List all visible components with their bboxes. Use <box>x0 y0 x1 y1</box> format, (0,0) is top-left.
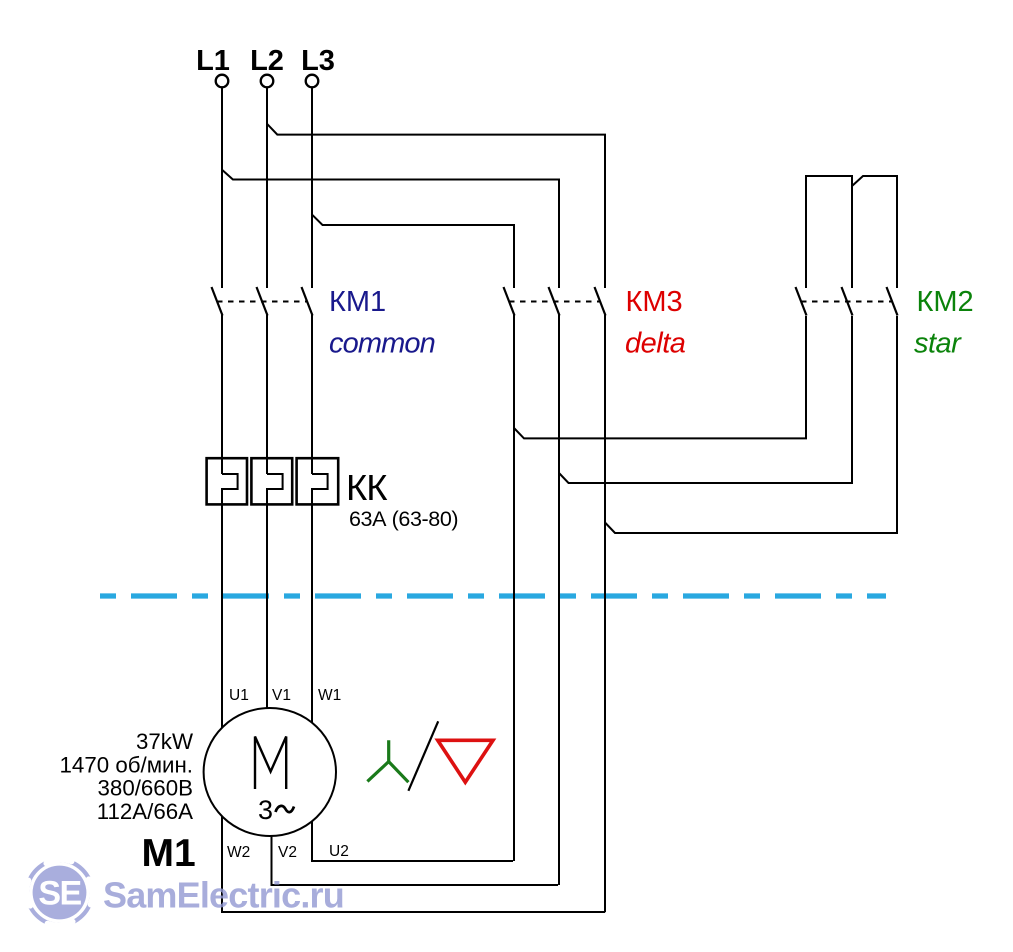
svg-text:63А (63-80): 63А (63-80) <box>349 507 458 531</box>
contactor KM1 linkage dashed <box>217 301 307 303</box>
motor letter M glyph <box>255 737 286 790</box>
svg-text:W1: W1 <box>318 687 341 704</box>
wire tap KM3 pole3 to KM2 pole3 <box>605 316 897 533</box>
star symbol (green Y) <box>367 740 408 782</box>
terminal L1 <box>216 75 229 88</box>
contactor KM2 pole2 blade <box>842 287 853 316</box>
thermal relay KK element 3 box <box>297 458 339 504</box>
svg-text:SE: SE <box>38 875 81 913</box>
contactor KM1 pole2 blade <box>257 287 268 316</box>
svg-text:W2: W2 <box>227 844 250 861</box>
wire KM2 star bridge <box>806 176 852 288</box>
dash-dot control/power boundary line <box>100 593 886 598</box>
svg-text:1470 об/мин.: 1470 об/мин. <box>60 753 193 778</box>
slash separator <box>408 721 438 791</box>
svg-text:3: 3 <box>258 795 273 825</box>
delta symbol (red triangle) <box>438 740 493 782</box>
terminal L2 <box>261 75 274 88</box>
contactor KM1 pole3 blade <box>302 287 313 316</box>
svg-text:V2: V2 <box>278 844 297 861</box>
wire KM3 pole1 bottom <box>513 315 515 861</box>
wire motor V2 to node at x559 <box>272 800 559 885</box>
wire KK heater element 3 to motor W1 <box>312 474 328 745</box>
svg-text:SamElectric.ru: SamElectric.ru <box>103 875 344 916</box>
svg-text:M1: M1 <box>142 832 196 875</box>
wire L1 column down to KM1 pole1 <box>221 88 223 289</box>
svg-text:КК: КК <box>346 467 388 508</box>
svg-text:U1: U1 <box>229 687 249 704</box>
contactor KM3 pole2 blade <box>549 287 560 316</box>
wire L3 column down to KM1 pole3 <box>311 88 313 289</box>
wire KK heater element 1 to motor U1 <box>222 474 238 760</box>
watermark logo swirls <box>27 860 93 926</box>
wire tap KM3 pole1 to KM2 pole1 <box>514 316 806 438</box>
motor M1 circle <box>204 708 336 836</box>
svg-text:V1: V1 <box>272 687 291 704</box>
wire KM1 pole3 bottom <box>311 315 313 474</box>
contactor KM2 linkage dashed <box>801 301 892 303</box>
watermark logo SE disc <box>33 866 87 920</box>
svg-text:КМ2: КМ2 <box>917 286 974 318</box>
contactor KM1 pole1 blade <box>212 287 223 316</box>
wire KK heater element 2 to motor V1 <box>267 474 283 740</box>
svg-text:380/660В: 380/660В <box>98 776 193 801</box>
svg-text:КМ1: КМ1 <box>329 286 386 318</box>
wire L3 branch to KM3 pole1 <box>312 214 514 288</box>
contactor KM2 pole1 blade <box>796 287 807 316</box>
svg-text:delta: delta <box>625 328 686 360</box>
wire KM3 pole2 bottom <box>558 315 560 885</box>
contactor KM3 linkage dashed <box>509 301 600 303</box>
wire KM3 pole3 bottom <box>604 315 606 912</box>
svg-text:L2: L2 <box>250 45 284 77</box>
svg-text:КМ3: КМ3 <box>626 286 683 318</box>
contactor KM2 pole3 blade <box>887 287 898 316</box>
wire KM1 pole2 bottom <box>266 315 268 474</box>
svg-text:U2: U2 <box>329 843 349 860</box>
svg-text:L1: L1 <box>196 45 230 77</box>
svg-text:star: star <box>914 328 962 360</box>
contactor KM3 pole1 blade <box>504 287 515 316</box>
contactor KM3 pole3 blade <box>595 287 606 316</box>
thermal relay KK element 2 box <box>251 458 292 504</box>
svg-text:112А/66А: 112А/66А <box>97 799 193 824</box>
svg-text:L3: L3 <box>301 45 335 77</box>
wire L2 column down to KM1 pole2 <box>266 88 268 289</box>
wire KM1 pole1 bottom <box>221 315 223 474</box>
wire L1 branch to KM3 pole2 <box>222 170 559 288</box>
wire motor U2 to node at x514 <box>312 800 513 861</box>
svg-text:common: common <box>329 328 435 360</box>
svg-text:37kW: 37kW <box>136 729 193 754</box>
terminal L3 <box>306 75 319 88</box>
wire motor W2 to node at x605 <box>222 790 605 912</box>
thermal relay KK element 1 box <box>207 458 247 504</box>
watermark logo outer ring <box>27 860 92 925</box>
wire L2 branch to KM3 pole3 <box>267 124 605 288</box>
watermark group <box>27 860 344 926</box>
wire tap KM3 pole2 to KM2 pole2 <box>559 316 852 483</box>
